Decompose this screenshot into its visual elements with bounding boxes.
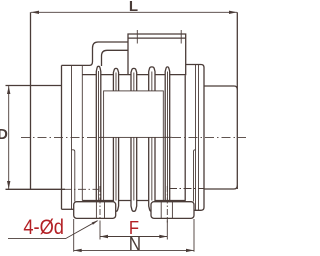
svg-text:L: L xyxy=(129,0,138,15)
svg-text:4-Ød: 4-Ød xyxy=(23,216,64,239)
svg-text:F: F xyxy=(129,217,139,238)
svg-text:D: D xyxy=(0,127,8,143)
